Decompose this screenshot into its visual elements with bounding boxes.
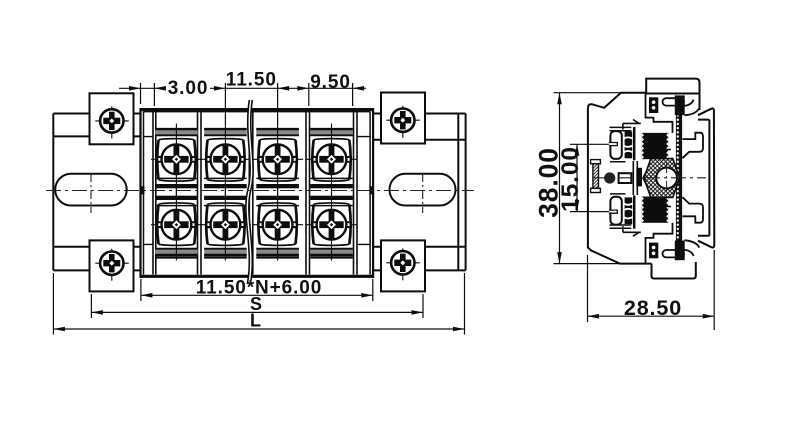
svg-text:9.50: 9.50 xyxy=(310,72,351,93)
svg-text:11.50: 11.50 xyxy=(226,70,277,91)
svg-text:3.00: 3.00 xyxy=(168,78,209,99)
svg-text:L: L xyxy=(250,311,262,331)
svg-text:28.50: 28.50 xyxy=(624,296,682,320)
svg-text:15.00: 15.00 xyxy=(557,146,584,212)
